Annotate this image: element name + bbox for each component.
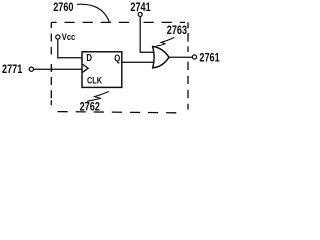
wire Q output to gate lower input [122,61,154,63]
leader line for 2760 [77,4,109,22]
wire from node 2771 to flip-flop clock input [34,68,82,70]
svg-text:2760: 2760 [53,1,73,15]
svg-text:CLK: CLK [87,74,102,85]
svg-text:D: D [86,52,92,63]
wire from Vcc to D input [58,39,82,58]
svg-text:Q: Q [114,52,120,63]
dashed block boundary 2760 bottom edge [58,112,185,113]
dashed block boundary 2760 left edge [50,22,52,105]
svg-text:2762: 2762 [80,100,100,114]
dashed block boundary 2760 top edge [51,21,129,23]
svg-text:2763: 2763 [167,24,187,38]
clock wedge [83,64,89,72]
wire gate output to node 2761 [169,56,192,58]
node 2741 terminal circle [138,12,142,16]
squiggle leader for 2763 [156,38,174,47]
OR gate 2763 [153,47,169,68]
dashed block boundary 2760 right edge upper part [187,22,189,52]
dashed block boundary 2760 right edge lower part [187,62,189,110]
node 2771 terminal circle [29,67,33,71]
Vcc terminal circle [56,35,60,39]
svg-text:2761: 2761 [199,51,219,65]
node 2761 terminal circle [192,55,196,59]
svg-text:Vcc: Vcc [62,31,76,42]
squiggle leader for 2762 [87,92,109,102]
wire from node 2741 to gate upper input [140,17,154,53]
D flip-flop U 2762 [82,52,122,88]
svg-text:2771: 2771 [2,63,22,77]
